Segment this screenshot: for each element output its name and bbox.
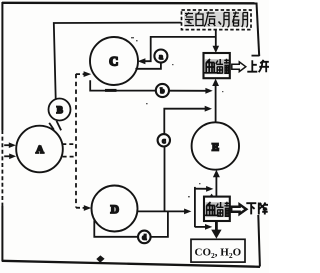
- circle d: [138, 231, 151, 244]
- svg-text:d: d: [142, 234, 146, 242]
- text blood-sugar upper (hand-drawn glyphs): [205, 59, 229, 74]
- bracket top arm with arrow: [195, 188, 208, 190]
- wire sugar box bottom up-arrow and vertical to E: [215, 85, 217, 123]
- svg-text:CO2, H2O: CO2, H2O: [195, 247, 242, 261]
- circle D: [92, 186, 138, 232]
- wire D right to bracket with arrow: [137, 210, 185, 212]
- hollow arrow rise: [232, 62, 246, 72]
- wire protein box down to sugar box: [215, 30, 217, 48]
- dashed vertical from A: [75, 74, 77, 208]
- border bottom: [2, 261, 260, 267]
- wire a stem to C bottom-right: [135, 63, 161, 69]
- arrow into C right: [138, 58, 146, 64]
- bowtie artifact on bottom border: [96, 255, 104, 262]
- wire d loop from D bottom: [94, 220, 138, 236]
- scan specks: [131, 37, 223, 197]
- small up caret at lower box top: [209, 194, 214, 198]
- upper blood sugar box: [204, 53, 230, 78]
- border right lower segment: [258, 215, 260, 267]
- bai: [196, 12, 203, 26]
- border top: [2, 2, 258, 5]
- svg-text:D: D: [111, 204, 119, 216]
- circle c: [158, 134, 170, 146]
- zhi: [204, 12, 216, 27]
- text blood-sugar lower (hand-drawn glyphs): [206, 202, 230, 217]
- text fall (hand-drawn): [246, 203, 268, 215]
- thick wire lower box down to CO2 box: [215, 221, 218, 231]
- thick overlap dash under C: [105, 89, 117, 92]
- svg-text:a: a: [159, 53, 163, 61]
- CO2 H2O box: [191, 239, 245, 262]
- wire b to main vertical with arrow: [169, 90, 207, 92]
- dashed arm with arrow into C: [76, 73, 84, 75]
- dashed stub A lower: [63, 156, 76, 158]
- zhi2: [223, 12, 240, 28]
- circle B: [49, 99, 71, 121]
- wire lower sugar box up to E with arrow: [215, 176, 217, 197]
- circle A: [16, 126, 63, 173]
- wire C-top loop to sugar box top: [144, 37, 216, 61]
- fang: [242, 13, 248, 28]
- svg-text:A: A: [36, 144, 44, 156]
- border left: [1, 2, 3, 130]
- svg-text:B: B: [57, 105, 63, 115]
- text rise (hand-drawn): [247, 60, 269, 72]
- text protein comma fat (hand-drawn glyphs): [184, 12, 248, 28]
- dashed arm with arrow into D: [76, 207, 84, 209]
- lower blood sugar box: [204, 197, 230, 221]
- circle a: [154, 50, 167, 63]
- wire c branch up to main vertical: [164, 147, 166, 212]
- arrow into A upper: [4, 144, 10, 146]
- protein-fat dashed box: [182, 10, 252, 30]
- hollow arrow fall: [231, 204, 246, 214]
- svg-text:C: C: [109, 55, 118, 69]
- circle b: [156, 84, 169, 97]
- dashed stub A upper: [62, 143, 76, 145]
- arrow into A lower: [4, 155, 10, 157]
- wire B to protein box (top line): [54, 23, 182, 99]
- svg-text:b: b: [160, 87, 164, 95]
- circle E: [192, 122, 239, 169]
- bracket left of lower sugar box: [194, 187, 196, 227]
- border right hook: [252, 55, 260, 57]
- dan: [185, 13, 195, 26]
- border right upper segment: [257, 3, 260, 57]
- wire d to junction: [151, 211, 168, 237]
- comma: [219, 22, 222, 25]
- neck A-B: [49, 123, 54, 130]
- wire C bottom drop through b: [90, 80, 156, 90]
- circle C: [90, 37, 138, 85]
- svg-text:E: E: [212, 142, 219, 153]
- arrowhead into sugar box top: [213, 46, 220, 53]
- bracket bottom arm with arrow: [195, 226, 207, 228]
